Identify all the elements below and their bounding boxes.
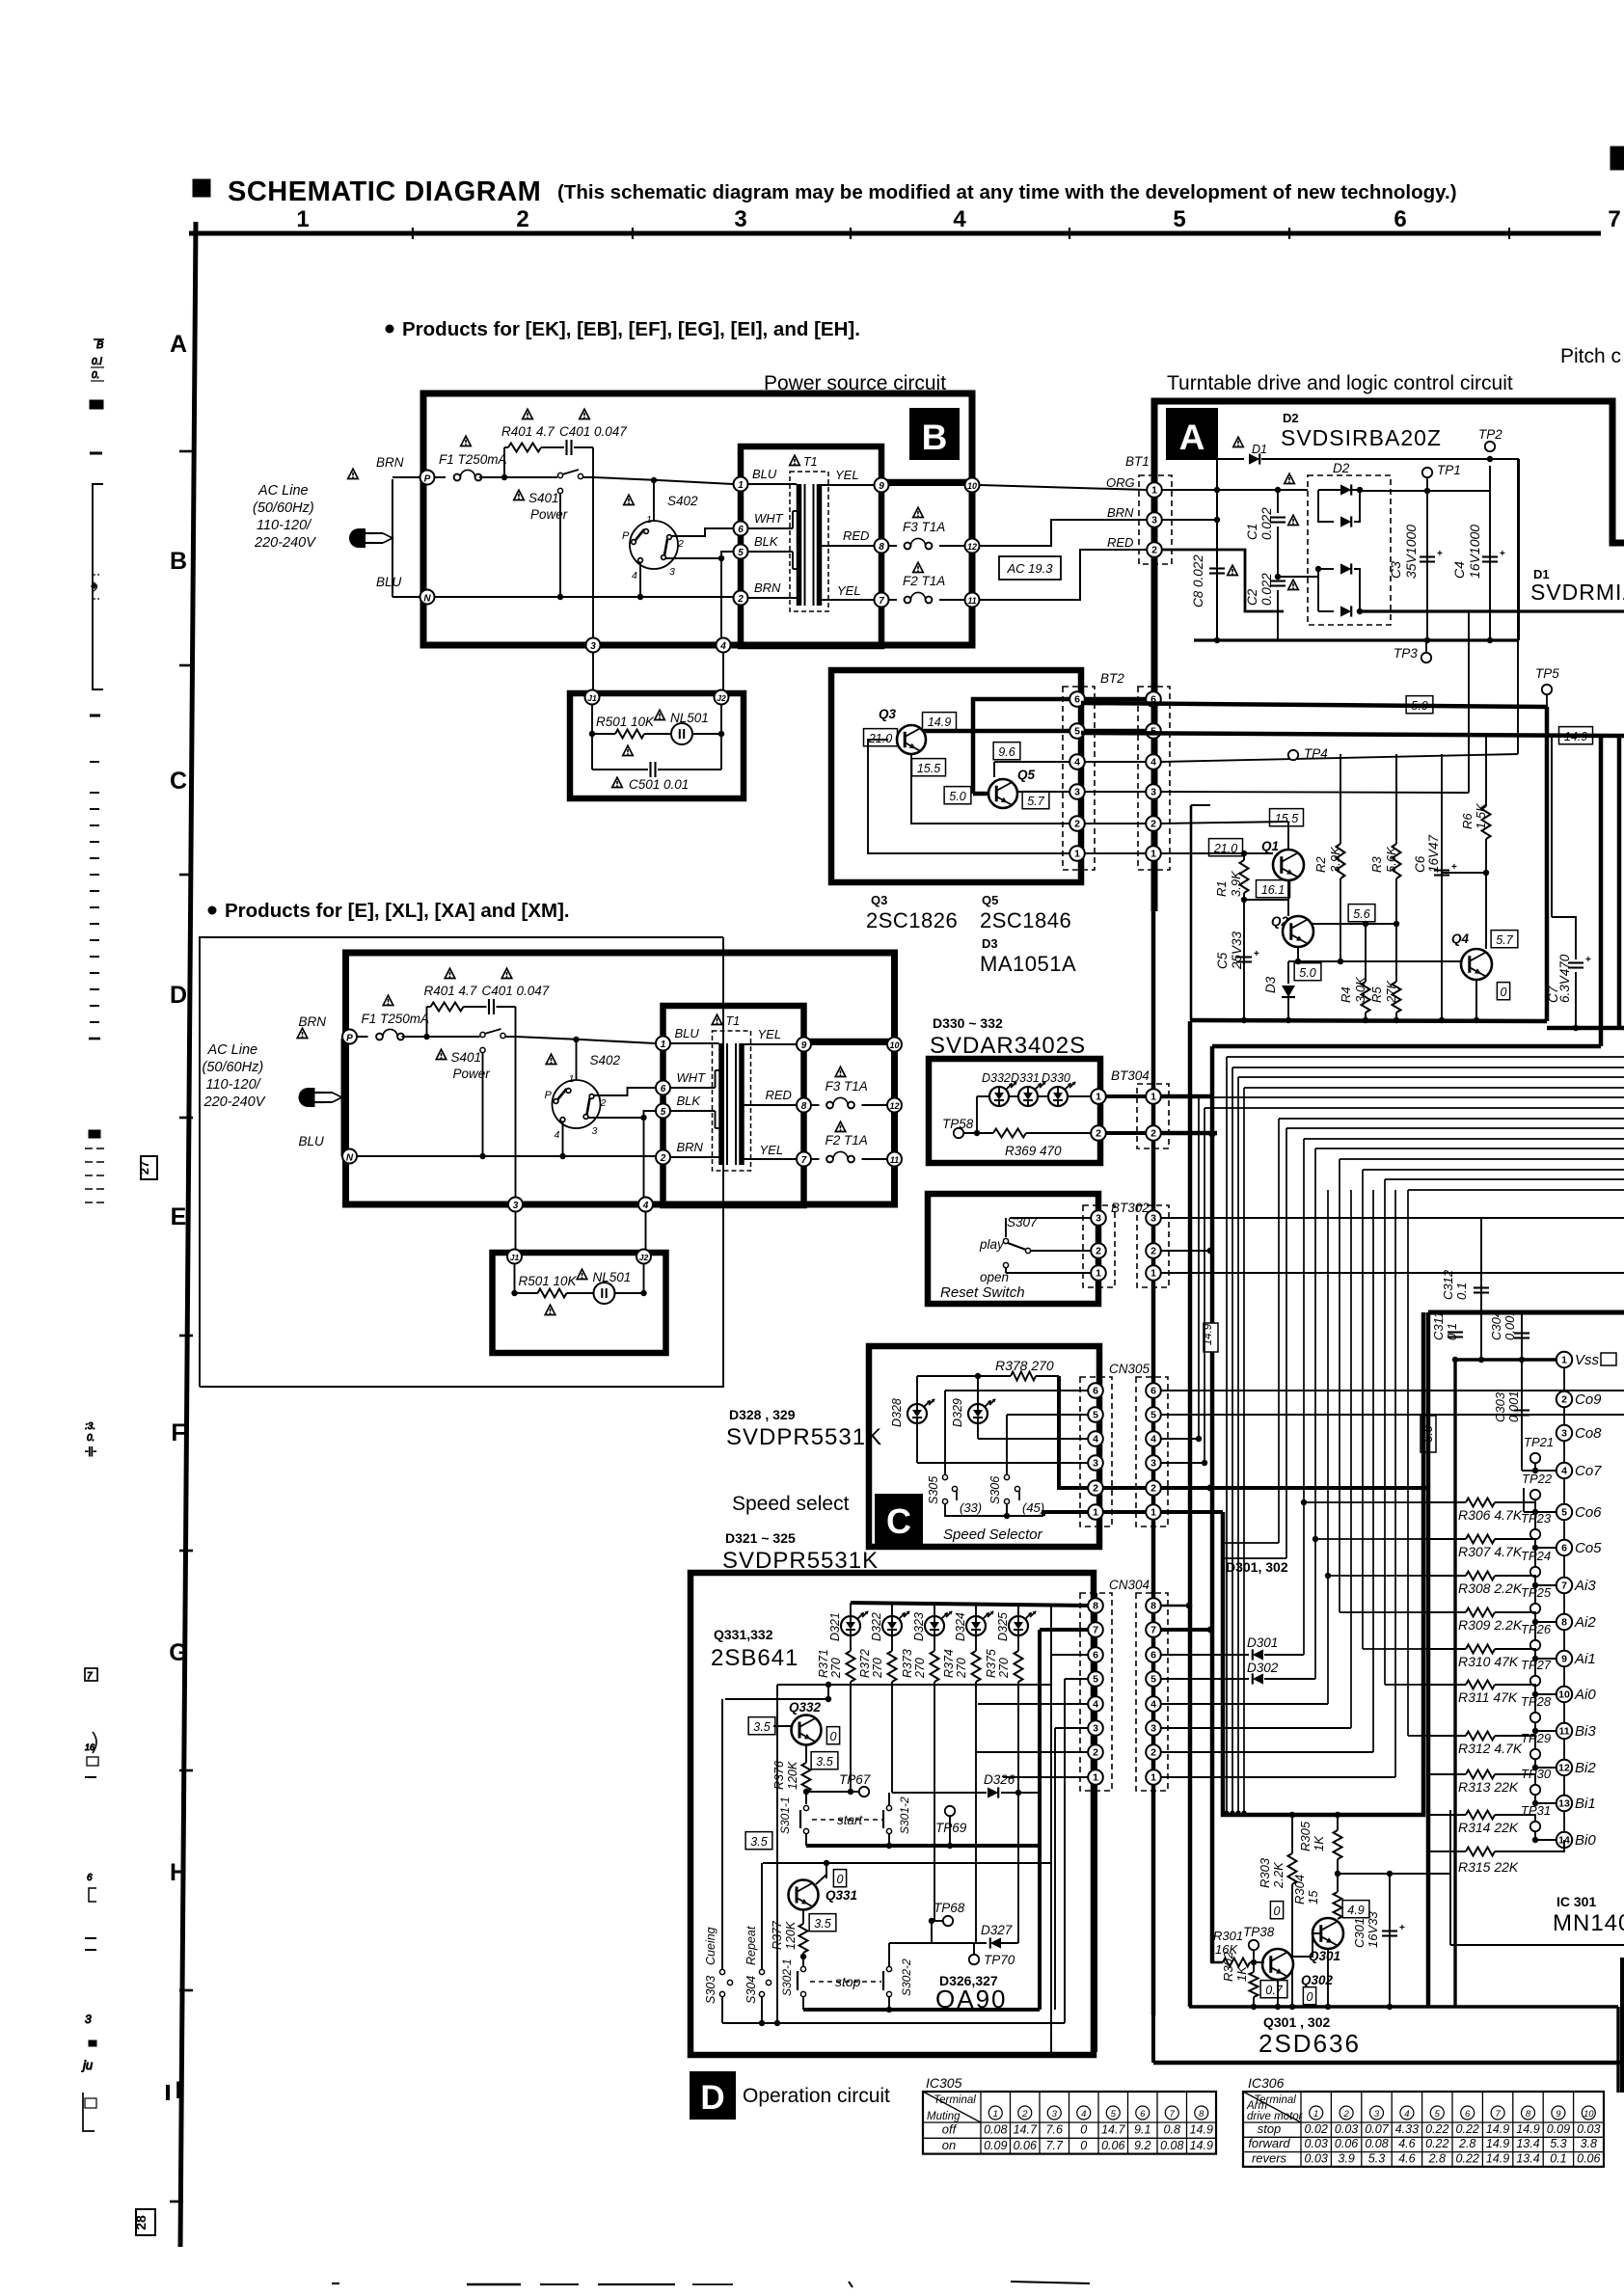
svg-text:1: 1 — [993, 2109, 998, 2120]
svg-text:1: 1 — [1074, 849, 1080, 860]
svg-text:16.1: 16.1 — [1261, 883, 1285, 897]
terminal N — [342, 1149, 357, 1164]
svg-text:TP1: TP1 — [1437, 463, 1461, 477]
wire Q3 1 loop — [868, 740, 1077, 853]
svg-text:5.0: 5.0 — [949, 790, 965, 803]
connector BT304 col2 rect — [1137, 1084, 1169, 1148]
BT2 block outer box — [831, 670, 1081, 882]
svg-text:S306: S306 — [988, 1476, 1002, 1504]
svg-text:4: 4 — [719, 641, 726, 652]
svg-text:2: 2 — [600, 1097, 607, 1109]
svg-text:C312: C312 — [1441, 1269, 1455, 1300]
svg-text:(33): (33) — [960, 1500, 982, 1515]
wire bridge mid to C column — [1278, 576, 1318, 578]
svg-text:BT1: BT1 — [1125, 454, 1150, 469]
svg-text:Turntable drive and logic cont: Turntable drive and logic control circui… — [1167, 372, 1513, 394]
voltage 0 at Q332 — [826, 1727, 839, 1744]
svg-text:on: on — [942, 2138, 956, 2152]
svg-text:R369 470: R369 470 — [1005, 1144, 1062, 1158]
wire snubber down to node 3 — [592, 447, 594, 642]
svg-text:2: 2 — [1096, 1246, 1101, 1257]
voltage 15.5 at Q3 — [912, 759, 946, 776]
svg-text:Power: Power — [530, 507, 568, 522]
transformer secondary pins — [875, 478, 889, 493]
svg-text:3: 3 — [1093, 1723, 1098, 1735]
svg-text:3.5: 3.5 — [816, 1755, 832, 1769]
svg-text:3: 3 — [1074, 787, 1080, 798]
svg-text:8: 8 — [1199, 2109, 1204, 2120]
svg-text:R1: R1 — [1214, 880, 1229, 897]
collector bus Q332 — [777, 1606, 1051, 1685]
svg-text:1: 1 — [1150, 1507, 1156, 1519]
svg-text:IC305: IC305 — [926, 2075, 962, 2091]
connector CN305 col rects — [1080, 1377, 1112, 1526]
power source circuit outer box — [346, 953, 895, 1204]
svg-text:3: 3 — [1093, 1458, 1098, 1470]
svg-text:TP67: TP67 — [839, 1772, 871, 1787]
svg-text:AC Line: AC Line — [207, 1042, 258, 1058]
svg-text:(50/60Hz): (50/60Hz) — [203, 1060, 264, 1075]
resistor R313 22K — [1428, 1773, 1466, 1775]
svg-text:R377: R377 — [771, 1920, 784, 1950]
svg-text:14.9: 14.9 — [1486, 2152, 1509, 2166]
svg-text:1: 1 — [1150, 1268, 1156, 1280]
wire D329 to CN305-4 — [978, 1438, 1091, 1440]
svg-text:D3: D3 — [982, 936, 998, 951]
svg-text:2SC1846: 2SC1846 — [980, 908, 1071, 932]
bridge rectifier D2 dashed box — [1308, 475, 1391, 625]
wire Q4 emitter down — [1475, 980, 1477, 1020]
svg-text:0.1: 0.1 — [1454, 1283, 1469, 1300]
wire RED down — [1162, 550, 1284, 611]
section D marker — [690, 2072, 735, 2119]
svg-text:1: 1 — [1150, 1092, 1156, 1103]
section A box border — [1154, 401, 1624, 911]
harness 14.9 vertical — [1210, 1046, 1215, 1962]
svg-text:2: 2 — [737, 594, 744, 605]
svg-text:1: 1 — [1093, 1507, 1098, 1519]
svg-text:5: 5 — [1093, 1674, 1098, 1686]
wire LED chain — [977, 1095, 989, 1097]
svg-text:WHT: WHT — [754, 511, 784, 526]
snubber R401 4.7 — [503, 447, 505, 477]
svg-text:R304: R304 — [1292, 1875, 1307, 1904]
svg-text:1K: 1K — [1234, 1965, 1249, 1982]
svg-text:BRN: BRN — [299, 1014, 327, 1029]
svg-text:D322: D322 — [870, 1612, 883, 1641]
svg-text:220-240V: 220-240V — [203, 1094, 266, 1110]
LED top bus — [851, 1603, 1091, 1606]
svg-text:270: 270 — [997, 1658, 1011, 1679]
connector BT2 column rects — [1063, 687, 1095, 870]
svg-text:0: 0 — [1080, 2139, 1087, 2152]
svg-text:D301, 302: D301, 302 — [1226, 1559, 1288, 1575]
warning triangle bridge — [1285, 473, 1295, 483]
svg-text:BT302: BT302 — [1111, 1201, 1150, 1215]
svg-text:H: H — [170, 1859, 187, 1886]
svg-text:+: + — [1451, 862, 1457, 873]
svg-text:C311: C311 — [1431, 1311, 1446, 1340]
page number 27 box — [141, 1156, 157, 1179]
wire terminal 3 down to J1 — [592, 653, 594, 690]
svg-text:2: 2 — [1342, 2109, 1349, 2120]
TP5 bus vertical — [1545, 707, 1550, 1021]
svg-text:R310 47K: R310 47K — [1458, 1654, 1519, 1669]
svg-text:D321 ~ 325: D321 ~ 325 — [725, 1530, 796, 1546]
svg-text:4: 4 — [1150, 1434, 1156, 1445]
svg-text:Bi2: Bi2 — [1575, 1760, 1596, 1776]
resistor R306 4.7K — [1428, 1501, 1466, 1503]
svg-text:5.0: 5.0 — [1421, 1425, 1435, 1442]
svg-text:4.6: 4.6 — [1398, 2152, 1415, 2166]
svg-text:6: 6 — [1561, 1543, 1567, 1554]
svg-text:1: 1 — [1561, 1355, 1567, 1366]
svg-text:5: 5 — [661, 1107, 666, 1118]
svg-text:TP70: TP70 — [984, 1953, 1015, 1967]
svg-text:9: 9 — [879, 481, 884, 492]
svg-text:(45): (45) — [1022, 1500, 1044, 1515]
svg-text:R313 22K: R313 22K — [1458, 1779, 1519, 1795]
wire Q1 collector to wire2 — [1287, 822, 1289, 850]
svg-text:R4: R4 — [1339, 986, 1353, 1003]
BT304 between-column wires — [1106, 1094, 1146, 1098]
svg-text:5: 5 — [1074, 726, 1080, 738]
svg-text:Power: Power — [453, 1067, 491, 1081]
svg-text:N: N — [346, 1153, 354, 1164]
svg-text:6: 6 — [1394, 206, 1406, 232]
svg-text:2: 2 — [1150, 1747, 1156, 1759]
svg-text:D329: D329 — [951, 1398, 964, 1427]
IC301 left edge — [1449, 1810, 1451, 1945]
svg-text:TP38: TP38 — [1243, 1925, 1275, 1939]
output pin 10 — [965, 478, 980, 493]
wire 9 to 10 — [889, 484, 964, 486]
svg-text:D326: D326 — [984, 1772, 1015, 1787]
svg-text:10: 10 — [889, 1040, 899, 1050]
terminal J1 — [585, 690, 600, 705]
IC301 pins — [1563, 1360, 1565, 1840]
svg-text:Operation circuit: Operation circuit — [743, 2085, 890, 2107]
svg-text:Products for [E], [XL], [XA] a: Products for [E], [XL], [XA] and [XM]. — [225, 900, 570, 922]
svg-text:CN304: CN304 — [1109, 1578, 1150, 1592]
svg-text:4.33: 4.33 — [1395, 2122, 1419, 2136]
svg-text:0.03: 0.03 — [1335, 2122, 1358, 2136]
wire F1 to switch — [402, 1036, 480, 1038]
svg-text:Q332: Q332 — [789, 1700, 822, 1715]
voltage 3.5 below Q332 — [811, 1752, 838, 1769]
voltage 5.7 at Q4 — [1491, 931, 1518, 948]
transformer secondary pins — [797, 1038, 811, 1052]
svg-text:3: 3 — [1151, 515, 1157, 527]
svg-text:BRN: BRN — [1107, 505, 1134, 520]
svg-text:Muting: Muting — [927, 2111, 961, 2122]
svg-text:120K: 120K — [784, 1921, 798, 1950]
svg-text:2.8: 2.8 — [1428, 2152, 1446, 2166]
svg-text:5: 5 — [738, 548, 744, 558]
terminal J2 — [715, 690, 729, 705]
wire N to transformer 2 — [434, 596, 733, 598]
svg-text:S302-1: S302-1 — [780, 1958, 794, 1996]
svg-text:0.i: 0.i — [92, 357, 102, 367]
svg-text:1: 1 — [1150, 849, 1156, 860]
IC306 table grid — [1243, 2092, 1604, 2167]
top right page artifact — [1610, 147, 1624, 170]
svg-text:BLU: BLU — [675, 1026, 700, 1040]
wire S306 to CN305-5 — [1007, 1414, 1091, 1416]
svg-text:Co6: Co6 — [1575, 1504, 1602, 1521]
svg-text:NL501: NL501 — [670, 711, 709, 725]
svg-text:MA1051A: MA1051A — [980, 952, 1076, 976]
svg-text:Co5: Co5 — [1575, 1540, 1602, 1556]
svg-text:Speed Selector: Speed Selector — [943, 1526, 1043, 1543]
thick Vss bus — [1455, 1358, 1564, 1361]
svg-text:J1: J1 — [510, 1253, 520, 1262]
voltage 16.1 at Q1 — [1257, 880, 1290, 898]
svg-text:8: 8 — [801, 1101, 807, 1112]
svg-text:YEL: YEL — [760, 1143, 784, 1157]
svg-text:3: 3 — [734, 206, 746, 232]
svg-text:YEL: YEL — [835, 468, 859, 482]
rotary switch S402 — [630, 521, 678, 569]
svg-text:TP28: TP28 — [1521, 1694, 1552, 1709]
cluster left border wire — [1190, 805, 1193, 1020]
svg-text:2SB641: 2SB641 — [711, 1645, 798, 1671]
svg-text:7: 7 — [1150, 1625, 1156, 1636]
wire3 vertical link — [1468, 611, 1470, 793]
svg-text:3: 3 — [85, 2012, 92, 2026]
wire D328 to CN305-3 — [917, 1462, 1091, 1464]
svg-text:1: 1 — [1313, 2109, 1318, 2120]
svg-text:0.06: 0.06 — [1101, 2139, 1124, 2152]
start row thick bus — [806, 1844, 1040, 1848]
svg-text:D2: D2 — [1333, 461, 1350, 475]
connector CN305 pins — [1088, 1383, 1103, 1398]
resistor R314 22K — [1428, 1814, 1466, 1816]
svg-text:RED: RED — [766, 1088, 792, 1102]
svg-text:MN140: MN140 — [1553, 1910, 1624, 1936]
voltage 0.7 — [1260, 1981, 1287, 1998]
svg-text:1: 1 — [1096, 1092, 1101, 1103]
svg-text:off: off — [942, 2122, 958, 2137]
wire P — [342, 1036, 343, 1038]
svg-text:12: 12 — [967, 542, 977, 552]
svg-text:C4: C4 — [1451, 561, 1467, 579]
cluster bottom bus — [1190, 1020, 1547, 1021]
voltage 3.5 at Q332 — [748, 1717, 775, 1735]
svg-text:N: N — [423, 594, 431, 605]
wire terminal 4 down to J2 — [722, 653, 724, 690]
svg-text:BLU: BLU — [299, 1134, 325, 1148]
svg-text:Q5: Q5 — [982, 893, 998, 907]
svg-text:D328: D328 — [890, 1398, 904, 1427]
wire BRN junction — [1162, 519, 1217, 521]
svg-text:5: 5 — [1150, 1674, 1156, 1686]
svg-text:Repeat: Repeat — [744, 1926, 758, 1965]
svg-text:27: 27 — [137, 1161, 151, 1175]
svg-text:Q3: Q3 — [871, 893, 887, 907]
right edge thick verticals — [1551, 736, 1553, 917]
wire TP68 row — [889, 1921, 932, 1943]
svg-text:SVDPR5531K: SVDPR5531K — [726, 1424, 882, 1450]
svg-text:TP26: TP26 — [1521, 1622, 1552, 1636]
svg-text:10: 10 — [1558, 1689, 1570, 1701]
svg-text:12: 12 — [1558, 1763, 1570, 1774]
svg-text:0.: 0. — [92, 370, 99, 381]
svg-text:R303: R303 — [1258, 1857, 1272, 1888]
connector BT302 pins — [1091, 1210, 1106, 1226]
svg-text:R401 4.7: R401 4.7 — [424, 984, 477, 998]
svg-text:5.7: 5.7 — [1027, 795, 1044, 808]
svg-text:270: 270 — [871, 1658, 884, 1679]
svg-text:R314 22K: R314 22K — [1458, 1820, 1519, 1835]
svg-text:0.06: 0.06 — [1577, 2152, 1600, 2166]
svg-text:NL501: NL501 — [593, 1270, 632, 1284]
svg-text:4: 4 — [1081, 2109, 1086, 2120]
svg-text:8: 8 — [1526, 2109, 1531, 2120]
top border rule — [189, 231, 1601, 236]
wire N — [392, 596, 420, 598]
svg-text:BRN: BRN — [754, 581, 781, 595]
svg-text:6: 6 — [1150, 1650, 1156, 1661]
svg-text:IC306: IC306 — [1248, 2075, 1285, 2091]
svg-text:4: 4 — [555, 1129, 560, 1141]
svg-text:6: 6 — [1140, 2109, 1146, 2120]
rotary switch S402 — [553, 1080, 601, 1128]
svg-text:0.8: 0.8 — [1164, 2123, 1180, 2137]
speed block box — [869, 1346, 1099, 1547]
svg-text:16V33: 16V33 — [1366, 1911, 1380, 1948]
wire node4 down — [720, 558, 722, 642]
svg-text:ju: ju — [81, 2058, 93, 2072]
diode D1 — [1233, 437, 1244, 446]
svg-text:1: 1 — [738, 480, 744, 491]
fuse F3 T1A — [835, 1067, 846, 1076]
svg-text:0.7: 0.7 — [1265, 1984, 1283, 1997]
svg-text:YEL: YEL — [837, 583, 861, 598]
svg-text:2SD636: 2SD636 — [1259, 2029, 1361, 2058]
test point TP70 — [969, 1955, 979, 1964]
output pin 12 — [965, 539, 980, 554]
svg-text:D325: D325 — [996, 1612, 1010, 1641]
svg-text:D301: D301 — [1247, 1635, 1278, 1650]
svg-text:B: B — [96, 339, 103, 351]
AC line plug — [299, 1088, 315, 1107]
wire 9 to 10 — [812, 1043, 887, 1045]
svg-text:R305: R305 — [1298, 1821, 1313, 1851]
bottom terminal 3 — [586, 638, 601, 653]
svg-text:6: 6 — [1074, 694, 1080, 706]
svg-text:4: 4 — [642, 1201, 649, 1211]
operation block box — [690, 1573, 1094, 2055]
svg-text:G: G — [169, 1639, 187, 1666]
wire BT302-1 right — [1161, 1272, 1624, 1274]
neon lamp NL501 — [655, 710, 665, 719]
output pin 11 — [965, 593, 980, 608]
svg-text:4: 4 — [1404, 2109, 1409, 2120]
resistor R311 47K — [1428, 1684, 1466, 1686]
svg-text:0.09: 0.09 — [984, 2139, 1007, 2152]
wire S-row left vertical — [776, 1685, 778, 2023]
svg-text:D328 , 329: D328 , 329 — [729, 1407, 796, 1422]
svg-text::3.: :3. — [85, 1421, 95, 1432]
svg-text:0: 0 — [1307, 1990, 1313, 2004]
voltage 0 at Q4 — [1497, 983, 1509, 1000]
voltage 0 at Q302 — [1303, 1987, 1315, 2005]
wire node4 down — [643, 1118, 645, 1202]
output pin 10 — [887, 1038, 902, 1052]
svg-text:Vss: Vss — [1575, 1352, 1600, 1368]
svg-text:Q331,332: Q331,332 — [714, 1627, 773, 1642]
svg-text:3.9: 3.9 — [1338, 2152, 1354, 2166]
bottom edge artifacts — [332, 2282, 339, 2284]
svg-text:0: 0 — [837, 1873, 844, 1886]
svg-text:3.5: 3.5 — [753, 1720, 770, 1734]
svg-text:D323: D323 — [912, 1612, 926, 1641]
harness verticals to CN304 — [1327, 1190, 1329, 1704]
svg-text:3: 3 — [1096, 1213, 1101, 1225]
wire C6 to R6 node — [1442, 872, 1486, 874]
svg-text:R307 4.7K: R307 4.7K — [1458, 1544, 1523, 1559]
svg-text:C6: C6 — [1413, 855, 1427, 873]
svg-text:5: 5 — [1093, 1410, 1098, 1421]
wire BT2-2 to cluster — [1161, 822, 1288, 824]
svg-text:270: 270 — [829, 1658, 843, 1679]
svg-text:S303: S303 — [704, 1976, 717, 2004]
svg-text:1: 1 — [1096, 1268, 1101, 1280]
svg-text:6: 6 — [661, 1084, 666, 1094]
wire S402 pin1 up — [576, 1040, 578, 1080]
svg-text:6.3V470: 6.3V470 — [1557, 954, 1572, 1003]
page title square bullet — [193, 179, 210, 197]
svg-text:AC 19.3: AC 19.3 — [1007, 561, 1054, 576]
svg-text:Ai3: Ai3 — [1574, 1578, 1596, 1594]
second power circuit enclosure — [200, 937, 723, 1387]
svg-text:9: 9 — [801, 1040, 807, 1051]
svg-text:Pitch c: Pitch c — [1560, 345, 1621, 367]
voltage 15.5 at Q1 — [1270, 809, 1304, 826]
svg-text:7.7: 7.7 — [1046, 2139, 1064, 2152]
svg-text:J2: J2 — [717, 693, 726, 703]
bottom bus Q301 area — [1189, 2005, 1618, 2008]
terminal P — [342, 1030, 357, 1044]
wire bridge top rail — [1360, 490, 1490, 492]
svg-text:0.022: 0.022 — [1259, 573, 1274, 606]
svg-text:1: 1 — [296, 206, 309, 232]
svg-text:0.02: 0.02 — [1305, 2122, 1328, 2136]
svg-text:B: B — [170, 548, 187, 575]
svg-text:SVDSIRBA20Z: SVDSIRBA20Z — [1281, 425, 1442, 450]
svg-text:C8 0.022: C8 0.022 — [1191, 554, 1205, 608]
svg-text:5.7: 5.7 — [1496, 933, 1513, 947]
resistor R309 2.2K — [1428, 1611, 1466, 1613]
svg-text:7: 7 — [1561, 1580, 1567, 1592]
svg-text:4: 4 — [1074, 757, 1080, 769]
svg-text:F2 T1A: F2 T1A — [826, 1133, 868, 1148]
svg-text:9: 9 — [1556, 2109, 1561, 2120]
svg-text:3: 3 — [1374, 2109, 1380, 2120]
svg-text:0.08: 0.08 — [1365, 2137, 1388, 2150]
svg-text:R308 2.2K: R308 2.2K — [1458, 1580, 1523, 1596]
wire R305 node — [1338, 1873, 1390, 1875]
svg-text:TP31: TP31 — [1521, 1803, 1551, 1818]
svg-text:9.1: 9.1 — [1134, 2123, 1150, 2137]
svg-text:3: 3 — [1150, 1458, 1156, 1470]
svg-text:J2: J2 — [639, 1253, 649, 1262]
svg-text:BLK: BLK — [677, 1094, 702, 1108]
fuse F1 T250mA — [357, 1036, 368, 1038]
motor block frame — [1428, 1310, 1624, 1315]
wire4 vertical link — [1517, 459, 1519, 754]
